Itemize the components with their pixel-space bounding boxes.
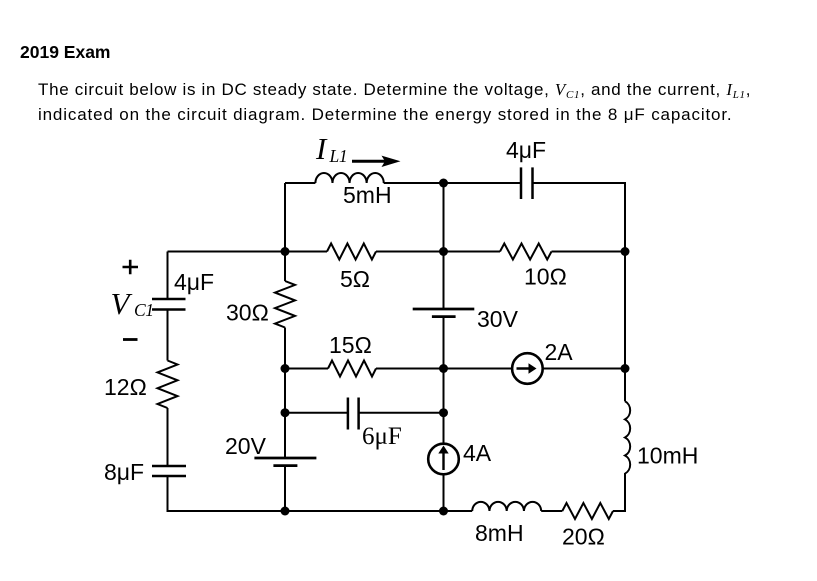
- wire (443.5,251.5)-(443.5,308): [443, 252, 445, 309]
- current source 2A circle: [512, 353, 543, 384]
- node (625,368.5): [621, 364, 630, 373]
- wire 8uF to bottom corner: [168, 476, 286, 511]
- plus sign: [123, 260, 139, 275]
- node (443.5,368.5): [439, 364, 448, 373]
- svg-text:4μF: 4μF: [174, 269, 214, 295]
- wire top row right segment to 4uF: [444, 182, 522, 184]
- wire top row segment before 5mH: [285, 182, 315, 184]
- node (443.5,412.7): [439, 408, 448, 417]
- wire 12ohm to 8uF: [167, 408, 169, 466]
- inductor 8mH: [472, 502, 541, 511]
- node (285,412.7): [281, 408, 290, 417]
- resistor 10 ohm: [500, 244, 552, 260]
- capacitor C 4uF top plates: [520, 167, 523, 199]
- svg-text:I: I: [315, 131, 328, 166]
- inductor 10mH: [625, 401, 630, 473]
- svg-text:L1: L1: [329, 146, 348, 166]
- wire (285,412.7)-(285,457.7): [284, 413, 286, 457]
- battery 30V plates: [413, 308, 475, 311]
- wire bottom rail left: [168, 510, 473, 512]
- wire (443.5,412.7) to 4A circle: [443, 413, 445, 444]
- svg-text:C1: C1: [134, 300, 154, 320]
- minus sign: [123, 338, 138, 341]
- svg-text:4A: 4A: [463, 440, 492, 466]
- node (625,251.5): [621, 247, 630, 256]
- node (443.5,511): [439, 507, 448, 516]
- wire 10mH to bottom right corner: [624, 474, 626, 511]
- svg-text:12Ω: 12Ω: [104, 374, 147, 400]
- svg-text:4μF: 4μF: [506, 137, 546, 163]
- wire 6uF to (443.5,412.7): [359, 412, 444, 414]
- resistor 30 ohm: [275, 281, 295, 328]
- wire col N (443.5,183)-(443.5,251.5): [443, 183, 445, 252]
- resistor 20 ohm: [562, 503, 613, 519]
- wire (443.5,368.5)-(512.1,368.5): [444, 368, 513, 370]
- wire row A (285,251.5)-(327,251.5): [285, 251, 327, 253]
- wire (443.5,368.5)-(443.5,412.7): [443, 369, 445, 413]
- svg-text:10mH: 10mH: [637, 443, 698, 469]
- node (285,251.5): [281, 247, 290, 256]
- svg-text:2A: 2A: [545, 339, 574, 365]
- svg-text:20V: 20V: [225, 433, 267, 459]
- capacitor 6uF plates: [347, 398, 350, 430]
- wire top row left vertical (285,183)-(285,251.5): [284, 183, 286, 252]
- resistor 15 ohm: [328, 361, 376, 377]
- problem statement text: [38, 78, 751, 127]
- capacitor C1 4uF plates: [152, 298, 186, 301]
- svg-text:8mH: 8mH: [475, 520, 524, 546]
- wire (625,368.5)-(625,401.3): [624, 369, 626, 402]
- wire (376,368.5)-(443.5,368.5): [376, 368, 444, 370]
- svg-text:6μF: 6μF: [362, 423, 402, 450]
- node at (443.5,183): [439, 179, 448, 188]
- wire 20 ohm to corner: [613, 473, 625, 511]
- arrow 4A up: [442, 452, 444, 470]
- wire 5mH to node (443.5,183): [384, 182, 444, 184]
- node (443.5,251.5): [439, 247, 448, 256]
- svg-text:30V: 30V: [477, 306, 519, 332]
- wire 2A to right col: [543, 368, 625, 370]
- svg-text:30Ω: 30Ω: [226, 300, 269, 326]
- resistor 12 ohm: [158, 361, 178, 409]
- svg-text:V: V: [111, 286, 133, 321]
- wire 8mH to 20 ohm: [541, 510, 562, 512]
- node (285,368.5): [281, 364, 290, 373]
- title text: [20, 42, 111, 63]
- svg-text:20Ω: 20Ω: [562, 524, 605, 550]
- wire row B (285,368.5)-(328,368.5): [285, 368, 328, 370]
- wire right col (625,251.5)-(625,368.5): [624, 252, 626, 369]
- svg-text:10Ω: 10Ω: [524, 264, 567, 290]
- arrow 2A right: [517, 367, 534, 369]
- wire mid col (285,251.5)-(285,281): [284, 252, 286, 282]
- wire 30V to (443.5,368.5): [443, 318, 445, 369]
- wire (376,251.5)-(500,251.5): [376, 251, 500, 253]
- wire C1 to 12ohm: [167, 310, 169, 361]
- resistor 5 ohm: [327, 244, 376, 260]
- svg-text:5mH: 5mH: [343, 182, 392, 208]
- arrow for I_L1: [352, 160, 385, 163]
- svg-text:15Ω: 15Ω: [329, 332, 372, 358]
- wire row A left (167.5,251.5)-(285,251.5): [168, 251, 286, 253]
- current source 4A circle: [428, 444, 459, 475]
- wire 20V to bottom: [284, 466, 286, 511]
- capacitor 8uF plates: [152, 465, 186, 468]
- wire (551.5,251.5)-(625,251.5): [552, 251, 626, 253]
- svg-text:5Ω: 5Ω: [340, 266, 370, 292]
- wire row C (285,412.7)-(347.9,412.7): [285, 412, 348, 414]
- wire 4uF to top right corner and down: [533, 183, 626, 252]
- svg-text:8μF: 8μF: [104, 459, 144, 485]
- wire left col down to C1 plate: [167, 252, 169, 300]
- wire 4A to bottom node: [443, 474, 445, 511]
- wire (285,327.5)-(285,412.7): [284, 328, 286, 413]
- inductor L1 5mH: [315, 173, 383, 183]
- node (285,511): [281, 507, 290, 516]
- battery 20V plates: [254, 457, 316, 460]
